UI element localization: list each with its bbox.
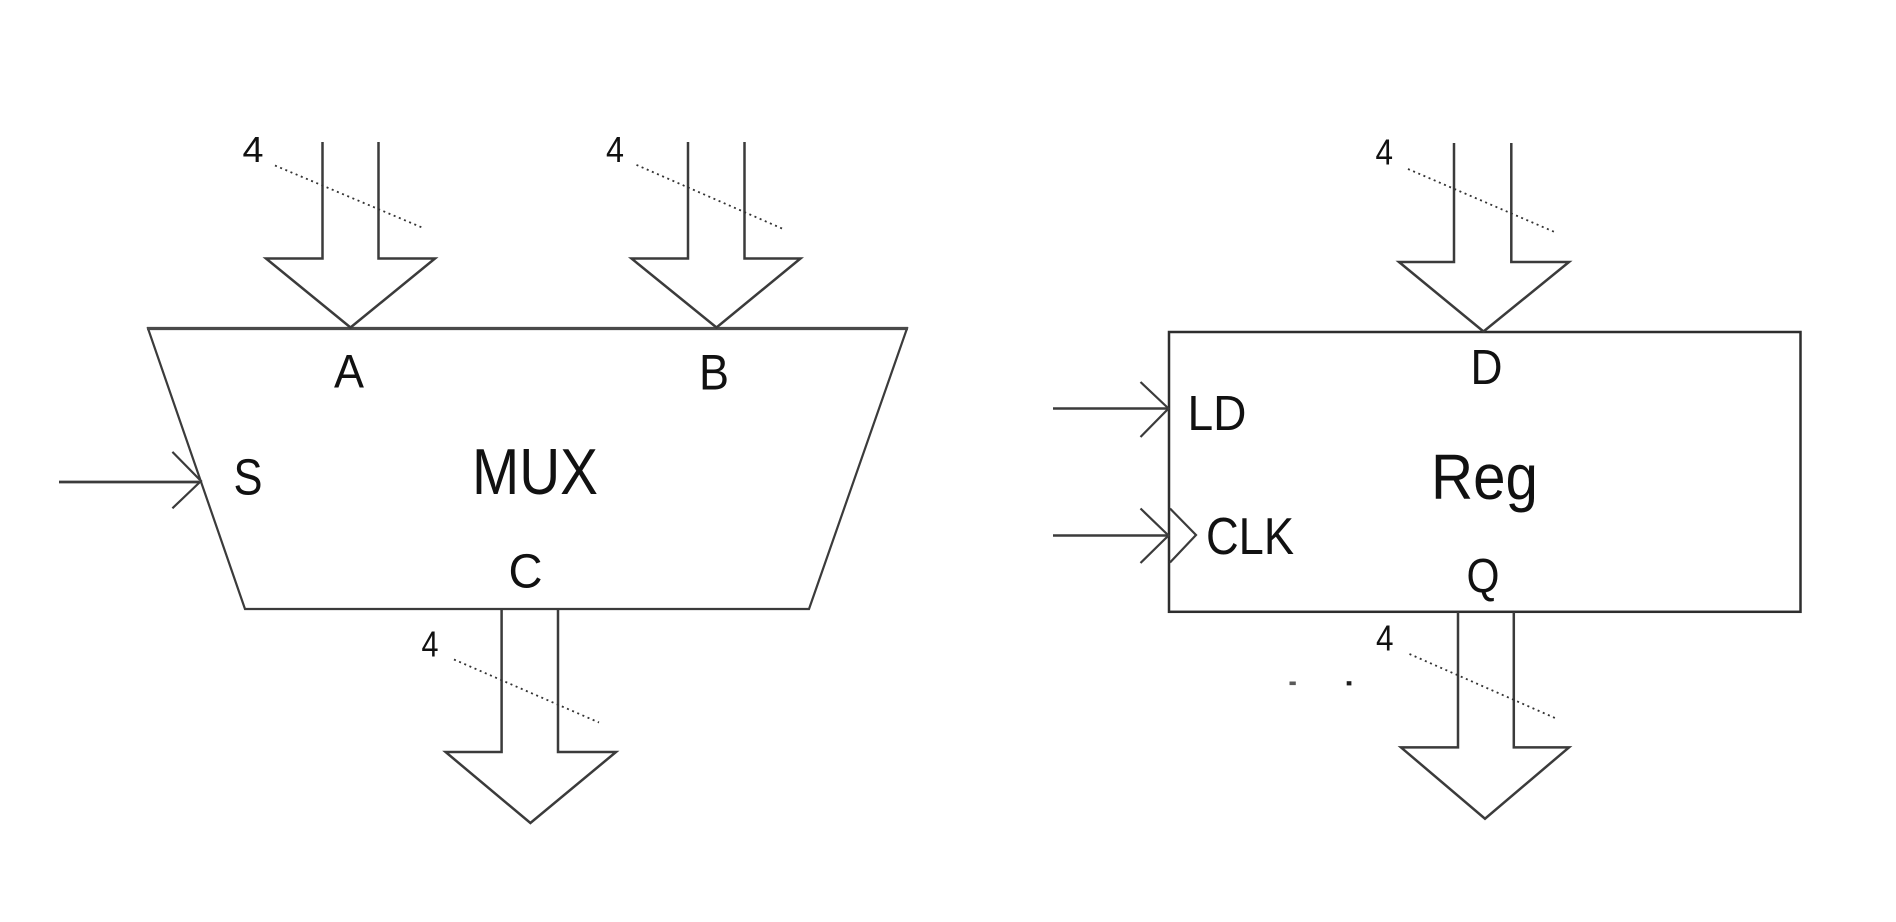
stray mark dot — [1347, 681, 1352, 685]
svg-text:C: C — [509, 545, 543, 599]
svg-text:4: 4 — [1376, 132, 1394, 173]
bus arrow into register input D — [1399, 143, 1569, 332]
stray mark dash — [1290, 682, 1296, 686]
wire clock input CLK — [1053, 534, 1168, 537]
svg-text:A: A — [334, 346, 364, 399]
bus width slash C — [454, 660, 599, 723]
clock edge wedge on CLK pin — [1170, 509, 1196, 563]
bus arrow into MUX input A — [266, 142, 435, 328]
bus arrow out of register output Q — [1401, 612, 1569, 819]
svg-text:4: 4 — [422, 624, 439, 665]
arrowhead on CLK wire — [1141, 509, 1169, 564]
svg-text:Reg: Reg — [1431, 441, 1538, 513]
svg-text:4: 4 — [1376, 618, 1394, 659]
mux top edge emphasis — [147, 327, 908, 330]
svg-text:CLK: CLK — [1206, 507, 1294, 565]
wire select input S — [59, 481, 199, 484]
svg-text:MUX: MUX — [472, 435, 598, 508]
arrowhead on LD wire — [1141, 382, 1169, 437]
svg-text:Q: Q — [1467, 550, 1500, 604]
bus width slash D — [1408, 169, 1555, 232]
svg-text:B: B — [699, 345, 729, 401]
mux U1 body (trapezoid) — [148, 329, 907, 610]
register U2 body — [1169, 332, 1801, 612]
bus width slash A — [275, 166, 422, 228]
bus arrow into MUX input B — [632, 142, 801, 328]
svg-text:S: S — [234, 449, 263, 506]
svg-text:D: D — [1471, 340, 1503, 395]
svg-text:4: 4 — [243, 129, 264, 170]
wire load input LD — [1053, 407, 1168, 410]
svg-text:4: 4 — [606, 129, 624, 170]
bus width slash B — [637, 165, 783, 229]
arrowhead on S wire — [172, 452, 201, 508]
bus width slash Q — [1410, 654, 1556, 718]
bus arrow out of MUX output C — [446, 609, 616, 823]
svg-text:LD: LD — [1188, 386, 1247, 441]
